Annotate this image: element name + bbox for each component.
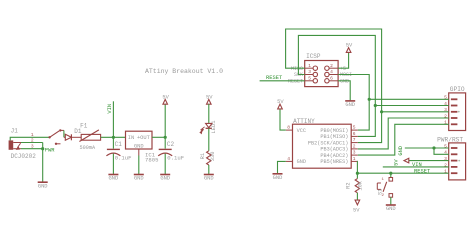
svg-text:PB4(ADC2): PB4(ADC2) <box>320 153 348 159</box>
svg-text:5: 5 <box>308 75 311 81</box>
svg-text:PB3(ADC3): PB3(ADC3) <box>320 147 348 153</box>
svg-text:F1: F1 <box>80 123 88 130</box>
svg-text:5: 5 <box>353 125 356 131</box>
svg-text:C1: C1 <box>115 141 123 148</box>
svg-text:GND: GND <box>345 102 355 108</box>
svg-text:R1: R1 <box>200 153 206 159</box>
svg-text:C2: C2 <box>167 141 175 148</box>
svg-text:RESET: RESET <box>266 75 283 81</box>
svg-text:5V: 5V <box>277 99 284 105</box>
svg-text:GND: GND <box>297 159 306 165</box>
svg-text:ATtiny Breakout V1.0: ATtiny Breakout V1.0 <box>145 68 223 75</box>
svg-text:GND: GND <box>38 183 48 189</box>
svg-text:8: 8 <box>287 125 290 131</box>
svg-text:3: 3 <box>31 144 34 150</box>
svg-text:PWR: PWR <box>45 147 55 153</box>
svg-text:500mA: 500mA <box>80 145 96 151</box>
svg-text:5V: 5V <box>353 208 360 214</box>
svg-text:VCC: VCC <box>297 128 306 134</box>
svg-text:ATTINY: ATTINY <box>293 118 315 125</box>
svg-text:R2: R2 <box>345 182 351 188</box>
svg-text:MOSI: MOSI <box>340 72 352 78</box>
svg-text:GND: GND <box>134 176 144 182</box>
svg-text:3: 3 <box>353 150 356 156</box>
svg-text:RESET: RESET <box>288 78 303 84</box>
svg-text:+5: +5 <box>340 66 346 72</box>
svg-text:GND: GND <box>273 175 283 181</box>
svg-text:7: 7 <box>353 137 356 143</box>
svg-text:4: 4 <box>330 69 333 75</box>
svg-text:1: 1 <box>353 156 356 162</box>
svg-text:VIN: VIN <box>412 162 422 168</box>
svg-text:RESET: RESET <box>414 168 431 174</box>
svg-text:6: 6 <box>330 75 333 81</box>
svg-text:PB0(MOSI): PB0(MOSI) <box>320 128 348 134</box>
svg-text:2: 2 <box>330 63 333 69</box>
svg-text:GPIO: GPIO <box>450 86 465 93</box>
svg-text:J1: J1 <box>11 127 19 134</box>
svg-text:GND: GND <box>398 146 404 156</box>
svg-text:DCJ0202: DCJ0202 <box>11 153 37 160</box>
svg-text:PB5(NRES): PB5(NRES) <box>320 159 348 165</box>
svg-text:MISO: MISO <box>291 66 303 72</box>
svg-text:IN: IN <box>128 135 134 141</box>
svg-text:PB1(MISO): PB1(MISO) <box>320 134 348 140</box>
svg-text:2: 2 <box>353 144 356 150</box>
svg-text:0.1uF: 0.1uF <box>115 154 132 161</box>
svg-text:7805: 7805 <box>145 156 158 163</box>
svg-text:3: 3 <box>308 69 311 75</box>
svg-text:LED1: LED1 <box>211 121 217 134</box>
svg-text:PWR/RST: PWR/RST <box>437 137 463 144</box>
svg-text:5V: 5V <box>346 43 353 49</box>
svg-text:ICSP: ICSP <box>306 53 321 60</box>
svg-text:GND: GND <box>109 176 119 182</box>
svg-text:PB2(SCK/ADC1): PB2(SCK/ADC1) <box>308 140 348 146</box>
svg-text:5V: 5V <box>393 159 399 166</box>
svg-text:GND: GND <box>204 176 214 182</box>
svg-text:1: 1 <box>308 63 311 69</box>
svg-text:+OUT: +OUT <box>137 135 151 141</box>
svg-text:GND: GND <box>340 78 349 84</box>
svg-text:4: 4 <box>287 156 290 162</box>
svg-text:5V: 5V <box>206 94 213 100</box>
svg-text:2: 2 <box>31 137 34 143</box>
svg-text:10k: 10k <box>357 181 363 191</box>
svg-text:VIN: VIN <box>107 104 113 114</box>
svg-text:5V: 5V <box>162 94 169 100</box>
svg-text:1: 1 <box>31 132 34 138</box>
svg-text:GND: GND <box>386 206 396 212</box>
svg-text:GND: GND <box>160 176 170 182</box>
svg-text:0.1uF: 0.1uF <box>167 154 184 161</box>
svg-text:6: 6 <box>353 131 356 137</box>
svg-text:GND: GND <box>134 144 144 150</box>
svg-text:330: 330 <box>210 152 216 162</box>
